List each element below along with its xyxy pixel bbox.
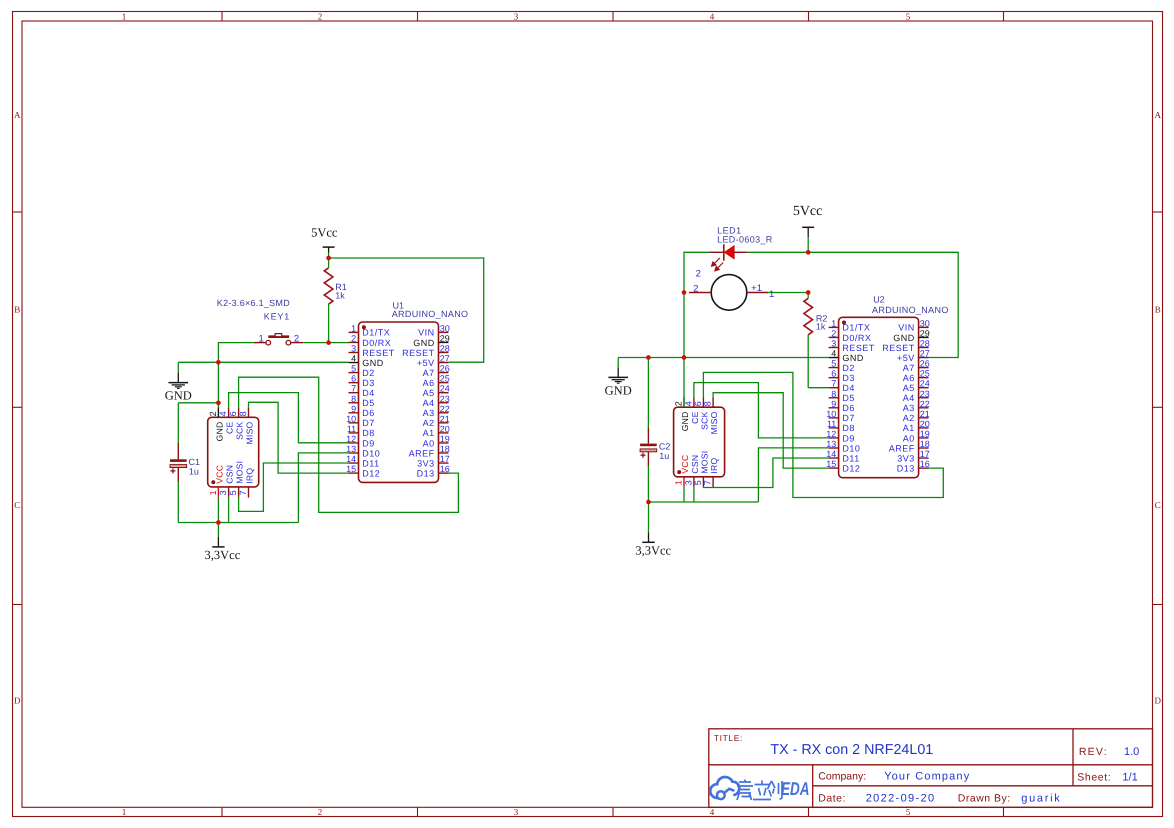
title block frame xyxy=(709,729,1153,808)
U1 pin 8 D5 xyxy=(349,394,375,408)
svg-text:RESET: RESET xyxy=(882,343,915,353)
svg-text:5: 5 xyxy=(351,364,356,374)
svg-text:MISO: MISO xyxy=(244,421,254,444)
svg-text:21: 21 xyxy=(440,414,450,424)
U1 pin 9 D6 xyxy=(349,404,375,418)
svg-text:1k: 1k xyxy=(335,291,345,301)
U1 pin 24 A5 xyxy=(423,384,450,398)
wire CSN to U1 D10 xyxy=(298,453,348,523)
svg-text:1u: 1u xyxy=(659,451,669,461)
svg-text:C: C xyxy=(1155,500,1161,510)
svg-text:A5: A5 xyxy=(423,388,435,398)
svg-text:30: 30 xyxy=(920,318,930,328)
U1 pin 3 RESET xyxy=(349,344,395,358)
svg-text:23: 23 xyxy=(440,394,450,404)
svg-text:1: 1 xyxy=(831,318,836,328)
svg-text:25: 25 xyxy=(440,374,450,384)
wire 5V top (left) xyxy=(329,258,484,362)
U1 pin 29 GND xyxy=(413,333,450,347)
svg-text:1: 1 xyxy=(673,480,683,485)
U1 pin 23 A4 xyxy=(423,394,450,408)
U1 pin 21 A2 xyxy=(423,414,450,428)
svg-text:D12: D12 xyxy=(362,468,380,478)
svg-text:+5V: +5V xyxy=(417,358,435,368)
svg-text:A6: A6 xyxy=(903,373,915,383)
svg-text:28: 28 xyxy=(920,339,930,349)
svg-text:4: 4 xyxy=(683,401,693,406)
svg-text:D4: D4 xyxy=(362,388,375,398)
wire MISO to U2 D12 xyxy=(713,393,829,468)
U2 pin 1 D1/TX xyxy=(829,318,871,332)
U1 pin 19 A0 xyxy=(423,434,450,448)
svg-text:D0/RX: D0/RX xyxy=(842,333,871,343)
U2 pin 25 A6 xyxy=(903,369,930,383)
wire 3.3V bottom rail xyxy=(178,522,298,524)
svg-text:3,3Vcc: 3,3Vcc xyxy=(635,544,671,558)
U1 pin 4 GND xyxy=(349,354,384,368)
P1 pin 6 SCK xyxy=(228,407,245,440)
svg-text:Sheet:: Sheet: xyxy=(1077,771,1111,783)
svg-text:24: 24 xyxy=(920,379,930,389)
U2 pin 29 GND xyxy=(893,328,930,342)
svg-text:TX - RX con 2 NRF24L01: TX - RX con 2 NRF24L01 xyxy=(770,742,933,758)
svg-text:A: A xyxy=(1154,110,1161,120)
svg-text:2: 2 xyxy=(831,328,836,338)
U1 pin 20 A1 xyxy=(423,424,450,438)
junction dots (right) xyxy=(646,250,811,504)
svg-text:5: 5 xyxy=(693,480,703,485)
svg-text:D7: D7 xyxy=(842,413,855,423)
svg-text:A7: A7 xyxy=(423,368,435,378)
P1 pin 5 MOSI xyxy=(228,461,245,497)
P2 pin 7 IRQ xyxy=(703,458,720,488)
svg-text:GND: GND xyxy=(842,353,864,363)
svg-text:A: A xyxy=(14,110,21,120)
EasyEDA logo cloud xyxy=(710,777,739,799)
svg-text:10: 10 xyxy=(346,414,356,424)
U1 pin 17 3V3 xyxy=(417,454,450,468)
pushbutton KEY1 xyxy=(254,334,303,345)
svg-text:4: 4 xyxy=(218,411,228,416)
svg-text:29: 29 xyxy=(920,328,930,338)
svg-text:7: 7 xyxy=(703,480,713,485)
U1 pin 2 D0/RX xyxy=(349,333,392,347)
svg-text:A1: A1 xyxy=(423,428,435,438)
svg-text:D13: D13 xyxy=(897,463,915,473)
U1 pin 11 D8 xyxy=(347,424,375,438)
P2 pin 3 CSN xyxy=(683,455,700,487)
svg-text:2: 2 xyxy=(294,334,299,345)
svg-text:GND: GND xyxy=(165,389,192,403)
svg-text:VIN: VIN xyxy=(898,323,915,333)
svg-text:GND: GND xyxy=(362,358,384,368)
frame row labels xyxy=(14,110,1162,706)
resistor R2 xyxy=(804,293,813,388)
svg-text:MISO: MISO xyxy=(709,411,719,434)
svg-text:D5: D5 xyxy=(362,398,375,408)
U2 pin 9 D6 xyxy=(829,399,855,413)
U2 pin 30 VIN xyxy=(898,318,930,332)
U1 pin 28 RESET xyxy=(402,344,450,358)
svg-text:IRQ: IRQ xyxy=(709,458,719,474)
svg-text:CE: CE xyxy=(690,411,700,423)
svg-text:D3: D3 xyxy=(362,378,375,388)
P2 pin 1 VCC xyxy=(673,455,690,487)
svg-text:D1/TX: D1/TX xyxy=(362,328,390,338)
svg-text:1: 1 xyxy=(351,323,356,333)
U1 pin 25 A6 xyxy=(423,374,450,388)
svg-text:2: 2 xyxy=(208,411,218,416)
svg-text:D5: D5 xyxy=(842,393,855,403)
svg-text:D1/TX: D1/TX xyxy=(842,323,870,333)
svg-text:2: 2 xyxy=(696,268,701,279)
wire P1 CSN down xyxy=(228,497,230,523)
svg-text:3: 3 xyxy=(514,807,519,817)
junction dots (left) xyxy=(216,256,331,525)
svg-text:LED-0603_R: LED-0603_R xyxy=(717,234,773,244)
svg-text:D: D xyxy=(14,696,21,706)
svg-text:KEY1: KEY1 xyxy=(264,311,290,321)
U1 pin 1 D1/TX xyxy=(349,323,391,337)
svg-text:3V3: 3V3 xyxy=(417,458,435,468)
svg-text:3V3: 3V3 xyxy=(897,453,915,463)
svg-text:Drawn By:: Drawn By: xyxy=(958,792,1011,804)
svg-text:23: 23 xyxy=(920,389,930,399)
svg-text:Your Company: Your Company xyxy=(884,770,970,782)
wire GND rail to U2 pin4 xyxy=(618,357,828,359)
svg-text:22: 22 xyxy=(440,404,450,414)
svg-text:Company:: Company: xyxy=(818,770,866,782)
svg-text:19: 19 xyxy=(920,429,930,439)
svg-text:26: 26 xyxy=(440,364,450,374)
P2 pin 4 CE xyxy=(683,397,700,424)
U1 pin 13 D10 xyxy=(346,444,380,458)
svg-text:6: 6 xyxy=(693,401,703,406)
IC U2 ARDUINO_NANO body xyxy=(839,317,919,477)
svg-text:ARDUINO_NANO: ARDUINO_NANO xyxy=(392,309,469,319)
svg-text:9: 9 xyxy=(831,399,836,409)
svg-text:3,3Vcc: 3,3Vcc xyxy=(205,548,241,562)
svg-text:MOSI: MOSI xyxy=(699,451,709,474)
svg-text:20: 20 xyxy=(440,424,450,434)
svg-text:CSN: CSN xyxy=(225,465,235,484)
U1 pin 10 D7 xyxy=(346,414,375,428)
svg-text:5: 5 xyxy=(906,11,911,21)
resistor R1 xyxy=(324,258,333,343)
svg-text:MOSI: MOSI xyxy=(235,461,245,484)
svg-text:1/1: 1/1 xyxy=(1122,771,1137,783)
svg-text:6: 6 xyxy=(351,374,356,384)
svg-text:A4: A4 xyxy=(903,393,915,403)
U1 pin 14 D11 xyxy=(346,454,379,468)
svg-text:D8: D8 xyxy=(842,423,855,433)
svg-text:6: 6 xyxy=(228,411,238,416)
svg-text:A0: A0 xyxy=(423,438,435,448)
wire P2 CSN down xyxy=(693,487,695,502)
svg-text:26: 26 xyxy=(920,359,930,369)
U2 pin 26 A7 xyxy=(903,359,930,373)
svg-text:D2: D2 xyxy=(842,363,855,373)
svg-text:1: 1 xyxy=(769,289,774,300)
P2 pin 5 MOSI xyxy=(693,451,710,487)
wire junction to C1 top xyxy=(178,402,218,404)
U2 pin 10 D7 xyxy=(826,409,855,423)
U1 pin 27 +5V xyxy=(417,354,450,368)
svg-text:A3: A3 xyxy=(903,403,915,413)
svg-text:D8: D8 xyxy=(362,428,375,438)
svg-text:+5V: +5V xyxy=(897,353,915,363)
wire CE to U1 D9 xyxy=(229,393,349,443)
svg-text:1: 1 xyxy=(208,490,218,495)
svg-text:U2: U2 xyxy=(873,294,885,304)
svg-text:4: 4 xyxy=(710,11,715,21)
R1 value labels xyxy=(335,282,347,300)
svg-text:EDA: EDA xyxy=(781,778,810,799)
LED1 labels xyxy=(717,226,773,245)
svg-text:GND: GND xyxy=(413,338,435,348)
svg-text:21: 21 xyxy=(920,409,930,419)
svg-text:2: 2 xyxy=(318,807,323,817)
wire CSN to U2 D10 xyxy=(758,448,828,502)
U2 refdes label xyxy=(872,294,949,315)
svg-text:GND: GND xyxy=(214,422,224,442)
U1 refdes label xyxy=(392,301,469,319)
svg-text:D11: D11 xyxy=(362,458,379,468)
svg-text:D10: D10 xyxy=(842,443,860,453)
P1 pin 8 MISO xyxy=(238,407,255,444)
wire LED anode left corner xyxy=(684,252,709,407)
svg-text:D6: D6 xyxy=(362,408,375,418)
svg-text:D13: D13 xyxy=(417,468,435,478)
P1 pin 4 CE xyxy=(218,407,235,434)
IC U1 ARDUINO_NANO body xyxy=(359,322,439,482)
svg-text:17: 17 xyxy=(440,454,450,464)
wire P2 VCC down xyxy=(683,487,685,502)
svg-text:D12: D12 xyxy=(842,463,860,473)
svg-text:D7: D7 xyxy=(362,418,375,428)
svg-text:7: 7 xyxy=(238,490,248,495)
connector P2 NRF24L01 body xyxy=(674,407,725,477)
svg-text:D0/RX: D0/RX xyxy=(362,338,391,348)
svg-text:3: 3 xyxy=(831,339,836,349)
svg-text:5: 5 xyxy=(831,359,836,369)
svg-text:3: 3 xyxy=(218,490,228,495)
U2 pin 16 D13 xyxy=(897,459,930,473)
wire CE to U2 D9 xyxy=(694,383,829,438)
svg-text:11: 11 xyxy=(347,424,356,434)
svg-text:3: 3 xyxy=(683,480,693,485)
svg-text:2: 2 xyxy=(693,284,698,295)
svg-text:17: 17 xyxy=(920,449,930,459)
U2 pin 2 D0/RX xyxy=(829,328,872,342)
svg-text:A4: A4 xyxy=(423,398,435,408)
svg-text:Date:: Date: xyxy=(818,792,846,804)
svg-text:16: 16 xyxy=(920,459,930,469)
svg-text:A6: A6 xyxy=(423,378,435,388)
svg-text:7: 7 xyxy=(351,384,356,394)
svg-text:GND: GND xyxy=(605,383,632,397)
svg-text:27: 27 xyxy=(920,349,930,359)
svg-text:AREF: AREF xyxy=(889,443,915,453)
svg-text:VIN: VIN xyxy=(418,328,435,338)
P1 pin 7 IRQ xyxy=(238,468,255,498)
U1 pin 22 A3 xyxy=(423,404,450,418)
svg-text:1k: 1k xyxy=(816,321,826,331)
svg-text:8: 8 xyxy=(831,389,836,399)
svg-text:A3: A3 xyxy=(423,408,435,418)
U2 pin 20 A1 xyxy=(903,419,930,433)
power symbol 5Vcc (right) xyxy=(793,204,823,252)
U2 pin 24 A5 xyxy=(903,379,930,393)
power symbol 5Vcc (left) xyxy=(311,225,338,258)
wire MOSI to U2 D11 xyxy=(703,458,828,488)
svg-text:D6: D6 xyxy=(842,403,855,413)
U2 pin 23 A4 xyxy=(903,389,930,403)
svg-text:2: 2 xyxy=(318,11,323,21)
KEY1 labels xyxy=(217,298,290,322)
svg-text:D2: D2 xyxy=(362,368,375,378)
svg-text:REV:: REV: xyxy=(1079,746,1108,758)
C2 value labels xyxy=(659,442,671,461)
capacitor C1 xyxy=(170,403,187,523)
wire P1 VCC down xyxy=(217,497,219,523)
svg-text:TITLE:: TITLE: xyxy=(714,733,743,743)
svg-text:6: 6 xyxy=(831,369,836,379)
svg-text:SCK: SCK xyxy=(699,411,709,429)
svg-text:8: 8 xyxy=(703,401,713,406)
svg-text:D9: D9 xyxy=(842,433,855,443)
svg-text:RESET: RESET xyxy=(362,348,395,358)
C1 value labels xyxy=(189,457,201,476)
svg-text:16: 16 xyxy=(440,464,450,474)
svg-text:SCK: SCK xyxy=(235,421,245,439)
svg-text:29: 29 xyxy=(440,333,450,343)
svg-text:10: 10 xyxy=(826,409,836,419)
U2 pin 12 D9 xyxy=(826,429,855,443)
svg-text:B: B xyxy=(1155,305,1161,315)
svg-text:27: 27 xyxy=(440,354,450,364)
svg-text:4: 4 xyxy=(831,349,836,359)
svg-text:11: 11 xyxy=(827,419,836,429)
wire GND to U1 pin4 xyxy=(178,361,348,363)
R2 value labels xyxy=(816,313,828,331)
svg-text:3: 3 xyxy=(351,344,356,354)
P1 pin 2 GND xyxy=(208,407,225,441)
svg-text:4: 4 xyxy=(351,354,356,364)
U2 pin 19 A0 xyxy=(903,429,930,443)
capacitor C2 xyxy=(640,358,657,503)
wire KEY pin1 down to GND net xyxy=(218,343,254,408)
U2 pin 5 D2 xyxy=(829,359,855,373)
svg-text:7: 7 xyxy=(831,379,836,389)
svg-text:30: 30 xyxy=(440,323,450,333)
U2 pin 8 D5 xyxy=(829,389,855,403)
frame column labels xyxy=(122,11,911,817)
P2 pin 8 MISO xyxy=(703,397,720,434)
U2 pin 15 D12 xyxy=(826,459,860,473)
svg-text:25: 25 xyxy=(920,369,930,379)
svg-text:RESET: RESET xyxy=(842,343,875,353)
wire SCK to U1 D13 xyxy=(239,377,459,512)
svg-text:VCC: VCC xyxy=(680,455,690,474)
svg-text:8: 8 xyxy=(351,394,356,404)
svg-text:AREF: AREF xyxy=(409,448,435,458)
U2 pin 6 D3 xyxy=(829,369,855,383)
wire MOSI to U1 D11 xyxy=(239,463,349,511)
wire 5V top (right) xyxy=(748,252,958,357)
U1 pin 15 D12 xyxy=(346,464,380,478)
power symbol 3,3Vcc (left) xyxy=(205,523,241,563)
svg-text:18: 18 xyxy=(440,444,450,454)
svg-text:2022-09-20: 2022-09-20 xyxy=(866,792,936,804)
U2 pin 3 RESET xyxy=(829,339,875,353)
svg-text:3: 3 xyxy=(514,11,519,21)
svg-text:1: 1 xyxy=(122,807,127,817)
U1 pin 30 VIN xyxy=(418,323,450,337)
svg-text:A0: A0 xyxy=(903,433,915,443)
svg-text:ARDUINO_NANO: ARDUINO_NANO xyxy=(872,305,949,315)
ground symbol GND (left) xyxy=(165,362,192,402)
LED LED1 xyxy=(709,244,748,270)
svg-text:GND: GND xyxy=(893,333,915,343)
svg-text:A2: A2 xyxy=(903,413,915,423)
wire MISO to U1 D12 xyxy=(249,402,349,473)
svg-text:28: 28 xyxy=(440,344,450,354)
svg-text:C: C xyxy=(14,500,20,510)
wire KEY pin2 to U1 D0/RX xyxy=(303,342,348,344)
svg-text:A2: A2 xyxy=(423,418,435,428)
svg-text:D4: D4 xyxy=(842,383,855,393)
svg-text:GND: GND xyxy=(680,411,690,431)
svg-text:B: B xyxy=(14,305,20,315)
U1 pin 6 D3 xyxy=(349,374,375,388)
svg-text:IRQ: IRQ xyxy=(244,468,254,484)
U1 pin 16 D13 xyxy=(417,464,450,478)
svg-text:D9: D9 xyxy=(362,438,375,448)
svg-text:D: D xyxy=(1154,696,1161,706)
svg-text:5: 5 xyxy=(906,807,911,817)
svg-text:CE: CE xyxy=(225,421,235,433)
svg-text:1: 1 xyxy=(122,11,127,21)
title block texts xyxy=(714,733,1139,805)
svg-text:18: 18 xyxy=(920,439,930,449)
svg-text:4: 4 xyxy=(710,807,715,817)
wire buzzer pin1 to R2 xyxy=(768,292,808,294)
U1 pin 7 D4 xyxy=(349,384,375,398)
svg-text:2: 2 xyxy=(351,333,356,343)
svg-text:5Vcc: 5Vcc xyxy=(311,225,338,239)
svg-text:9: 9 xyxy=(351,404,356,414)
wire SCK to U2 D13 xyxy=(703,372,943,497)
wire 3.3V bottom rail (right) xyxy=(649,501,759,503)
U2 pin 7 D4 xyxy=(829,379,855,393)
P1 pin 3 CSN xyxy=(218,465,235,497)
EasyEDA logo text xyxy=(737,778,810,800)
U2 pin 4 GND xyxy=(829,349,864,363)
U1 pin 18 AREF xyxy=(409,444,450,458)
svg-text:1.0: 1.0 xyxy=(1124,746,1139,758)
svg-text:D3: D3 xyxy=(842,373,855,383)
svg-text:A5: A5 xyxy=(903,383,915,393)
svg-text:8: 8 xyxy=(238,411,248,416)
svg-text:5Vcc: 5Vcc xyxy=(793,204,823,219)
buzzer/motor circular component xyxy=(689,268,774,310)
svg-text:20: 20 xyxy=(920,419,930,429)
svg-text:RESET: RESET xyxy=(402,348,435,358)
svg-text:+1: +1 xyxy=(751,283,762,294)
U2 pin 13 D10 xyxy=(826,439,860,453)
svg-text:24: 24 xyxy=(440,384,450,394)
